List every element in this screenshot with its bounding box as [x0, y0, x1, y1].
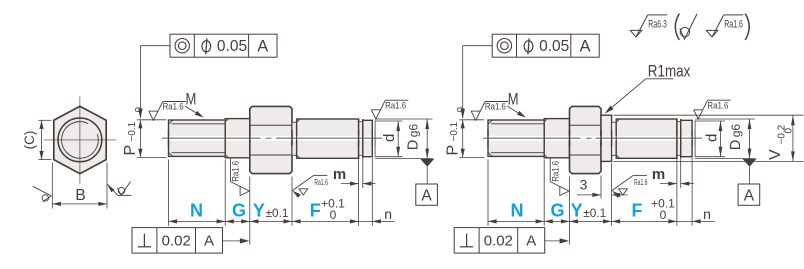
thread section left stud	[169, 120, 226, 156]
svg-text:N: N	[190, 201, 203, 221]
dim d extension lines left	[375, 120, 402, 122]
dim (C) extension line bottom	[39, 159, 52, 161]
thread section right stud	[488, 120, 544, 156]
svg-text:P: P	[445, 145, 462, 156]
svg-text:V: V	[767, 149, 784, 160]
svg-text:Ra1.6: Ra1.6	[707, 100, 728, 110]
svg-text:D g6: D g6	[406, 124, 422, 151]
svg-text:m: m	[333, 166, 346, 183]
hex flange side view left stud	[250, 106, 292, 173]
perpendicularity frame left	[132, 228, 223, 254]
surface symbol lower-right of hex	[107, 184, 114, 192]
surface Ra1.6 at G section left	[231, 159, 250, 196]
svg-text:G: G	[232, 201, 246, 221]
row arrows left	[169, 219, 178, 223]
dim D g6 label left	[406, 124, 422, 151]
svg-text:±0.1: ±0.1	[266, 206, 289, 220]
dimension row line left	[169, 220, 373, 222]
svg-text:M: M	[508, 91, 519, 109]
ext line hex left face bottom left	[249, 177, 251, 245]
G section left stud	[225, 119, 250, 158]
thread major circle front view	[58, 118, 102, 162]
concentricity frame leader right	[463, 45, 493, 47]
surface Ra1.6 above thread left	[149, 102, 186, 121]
dim 3 line right	[577, 194, 601, 196]
surface Ra1.6 at F section left	[292, 191, 300, 198]
svg-text:Ra1.6: Ra1.6	[385, 100, 406, 110]
general note open paren	[675, 14, 679, 40]
vertical edges over centerline left stud	[168, 130, 170, 146]
svg-text:Ra1.6: Ra1.6	[634, 178, 648, 187]
datum A triangle left	[420, 159, 434, 167]
end face edge line right stud	[694, 121, 696, 157]
dim D extension lines left	[375, 118, 432, 120]
dim d line left	[397, 121, 399, 157]
ext line N-G bottom left	[224, 160, 226, 226]
dim B extension line left	[51, 163, 53, 209]
svg-text:Ra1.6: Ra1.6	[163, 102, 184, 112]
dim B dimension line	[52, 203, 107, 205]
perpendicularity leader left	[223, 240, 248, 242]
ext line shaft end bottom right	[691, 158, 693, 226]
dim V extension lines right	[614, 114, 804, 116]
svg-text:0: 0	[660, 208, 667, 222]
svg-text:0: 0	[330, 208, 337, 222]
neck relief right stud	[612, 122, 617, 155]
surface Ra1.6 above thread right	[471, 102, 508, 121]
hex flange side view right stud	[570, 106, 602, 173]
ext line F end bottom left	[358, 159, 360, 226]
general surface note Ra6.3	[630, 15, 648, 37]
thread minor arc front view	[62, 122, 99, 159]
svg-text:m: m	[652, 166, 665, 183]
collar right stud	[601, 115, 612, 161]
dim P dimension line right stud	[462, 120, 464, 158]
dim P ext lines right stud	[459, 119, 484, 121]
svg-text:3: 3	[580, 177, 588, 193]
svg-text:F: F	[310, 201, 321, 221]
svg-text:Y: Y	[571, 201, 583, 221]
centerline left stud	[162, 136, 382, 141]
surface symbol lower-left of hex	[33, 186, 52, 196]
svg-text:D g6: D g6	[728, 124, 744, 151]
svg-text:0.05: 0.05	[539, 38, 569, 55]
datum A box right	[738, 184, 760, 205]
centerline vertical of hex front view	[79, 97, 81, 184]
concentricity frame leader left	[140, 45, 170, 47]
svg-text:±0.1: ±0.1	[583, 206, 606, 220]
svg-text:Y: Y	[253, 201, 265, 221]
svg-text:M: M	[186, 91, 197, 109]
svg-text:n: n	[384, 206, 392, 222]
retaining ring groove left stud	[359, 122, 363, 156]
dim V line right	[792, 115, 794, 161]
general note basic symbol with circle	[680, 14, 697, 39]
svg-text:d: d	[381, 134, 398, 142]
svg-text:−0.1: −0.1	[449, 121, 460, 141]
surface Ra1.6 at F section right	[612, 191, 620, 198]
svg-text:R1max: R1max	[648, 62, 691, 81]
datum A triangle right	[742, 159, 756, 167]
dim (C) extension line top	[39, 119, 52, 121]
surface Ra1.6 at end land left	[371, 100, 408, 119]
svg-text:F: F	[632, 201, 643, 221]
dimension row line right	[488, 220, 692, 222]
ext line thread start bottom left	[168, 160, 170, 226]
svg-text:Ra1.6: Ra1.6	[231, 161, 241, 182]
svg-text:Ra1.6: Ra1.6	[314, 178, 328, 187]
dim P dimension line left stud	[139, 120, 141, 158]
ext line thread start bottom right	[487, 160, 489, 226]
perpendicularity frame right	[454, 228, 545, 254]
dim m line right	[660, 183, 677, 185]
dim d line right	[720, 121, 722, 157]
F section right stud	[616, 119, 677, 158]
svg-text:−0.1: −0.1	[127, 121, 138, 141]
general note close paren	[745, 14, 749, 40]
svg-text:0: 0	[783, 128, 794, 134]
dim D line left	[426, 119, 428, 159]
ext line hex left face bottom right	[569, 177, 571, 245]
F section left stud	[297, 119, 359, 158]
ext line hex right face bottom left	[291, 177, 293, 226]
end face edge line left stud	[374, 121, 376, 157]
concentricity frame right	[492, 34, 599, 57]
perpendicularity leader right	[545, 240, 567, 242]
end land right stud	[681, 120, 692, 156]
svg-text:Ra6.3: Ra6.3	[648, 18, 667, 30]
svg-text:B: B	[75, 187, 85, 204]
retaining ring groove right stud	[677, 122, 681, 156]
svg-text:A: A	[421, 187, 432, 204]
dim (C) dimension line	[41, 120, 43, 159]
end land left stud	[363, 120, 373, 156]
svg-text:0.02: 0.02	[484, 233, 513, 250]
dim d extension lines right	[695, 120, 725, 122]
dim m ext lines left	[362, 159, 364, 188]
surface Ra1.6 at end land right	[694, 100, 731, 119]
svg-text:0.02: 0.02	[162, 233, 191, 250]
general surface note Ra1.6	[706, 15, 724, 37]
svg-text:A: A	[257, 37, 268, 55]
ext line N-G bottom right	[543, 160, 545, 226]
svg-text:P: P	[122, 145, 139, 156]
vertical edges over centerline right stud	[487, 130, 489, 146]
svg-text:(C): (C)	[22, 131, 37, 150]
svg-text:0.05: 0.05	[217, 38, 247, 55]
ext line F end bottom right	[676, 159, 678, 226]
svg-text:A: A	[526, 233, 536, 250]
dim D extension lines right	[695, 118, 755, 120]
hex head outline front view	[54, 106, 106, 174]
dim m ext line right	[680, 159, 682, 188]
svg-text:n: n	[703, 206, 711, 222]
svg-text:N: N	[511, 201, 524, 221]
svg-text:Ra1.6: Ra1.6	[724, 18, 743, 30]
svg-text:Ra1.6: Ra1.6	[550, 161, 560, 182]
dim m line left	[341, 183, 359, 185]
row arrows right	[488, 219, 497, 223]
surface Ra1.6 at G section right	[550, 159, 569, 196]
svg-text:A: A	[579, 37, 590, 55]
ext line shaft end bottom left	[371, 158, 373, 226]
dim P ext lines left stud	[137, 119, 167, 121]
svg-text:G: G	[550, 201, 564, 221]
concentricity frame left	[170, 34, 277, 57]
svg-text:A: A	[744, 187, 755, 204]
svg-text:Ra1.6: Ra1.6	[485, 102, 506, 112]
dim D line right	[749, 119, 751, 159]
svg-text:A: A	[204, 233, 214, 250]
dim D g6 label right	[728, 124, 744, 151]
dim 3 ext lines right	[600, 176, 602, 199]
dim B extension line right	[106, 163, 108, 209]
datum A box left	[416, 184, 438, 205]
centerline horizontal of hex front view	[44, 139, 116, 141]
centerline right stud	[483, 136, 702, 141]
G section right stud	[544, 119, 569, 158]
neck relief left stud	[292, 122, 297, 155]
svg-text:d: d	[703, 134, 720, 142]
